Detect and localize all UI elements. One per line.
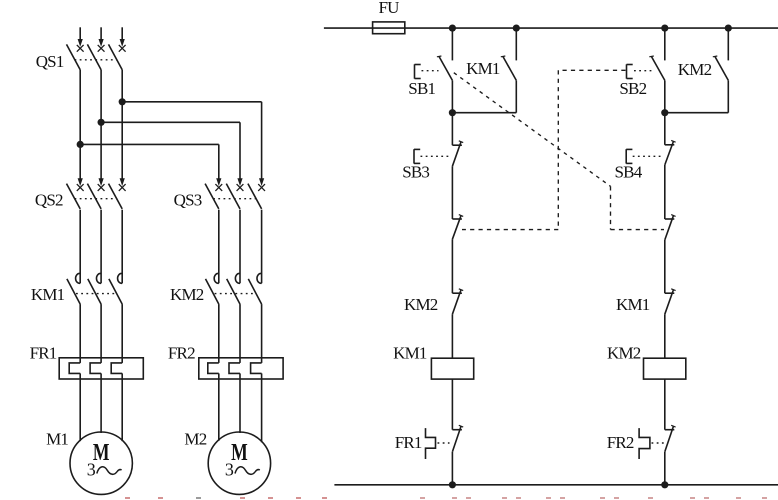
wire: top rail xyxy=(324,27,778,29)
interlock NC contact (opened by SB2) in KM1 branch xyxy=(452,215,463,294)
svg-text:KM1: KM1 xyxy=(616,295,650,314)
FR1 heater element 1 xyxy=(69,363,80,374)
svg-text:KM2: KM2 xyxy=(678,60,712,79)
FR2 heater element 1 xyxy=(208,363,219,374)
node: rail junction SB2 branch xyxy=(661,25,668,32)
node: tap phase A xyxy=(77,141,84,148)
thermal relay FR1 NC contact xyxy=(426,425,464,485)
pushbutton SB4 (NC stop) xyxy=(626,113,675,219)
FR2 heater element 3 xyxy=(251,363,262,374)
node: bottom junction KM2 branch xyxy=(661,481,668,488)
wire: QS3 pole 1 to KM2 xyxy=(218,210,220,284)
wire: FR1 to motor M1 lead 3 xyxy=(121,373,123,441)
wire: FR2 to motor M2 lead 1 xyxy=(218,373,220,440)
watermark remnants (cut-off red text at bottom edge) xyxy=(125,497,767,499)
wire: bottom rail xyxy=(334,484,778,486)
pushbutton SB2 (NO start) xyxy=(627,28,665,113)
wire: branch phase B to QS3 xyxy=(101,122,243,191)
contactor KM2 NC interlock contact xyxy=(452,289,463,358)
svg-text:SB3: SB3 xyxy=(402,163,429,182)
wire: KM1 coil to FR1 contact xyxy=(451,379,453,430)
mechanical link: SB1 to right interlock (dashed) xyxy=(454,73,664,230)
svg-text:KM2: KM2 xyxy=(170,285,204,304)
node: rail junction KM1 aux branch xyxy=(513,25,520,32)
coil KM1 xyxy=(431,358,473,379)
svg-text:KM2: KM2 xyxy=(404,295,438,314)
thermal relay FR2 heater box xyxy=(199,358,283,379)
thermal relay FR2 NC contact xyxy=(639,425,676,485)
wire: branch phase A to QS3 xyxy=(80,144,222,191)
coil KM2 xyxy=(644,358,686,379)
fuse FU xyxy=(373,22,405,34)
wire: KM2 pole 3 to FR2 heater xyxy=(261,304,263,363)
wire: KM2 pole 1 to FR2 heater xyxy=(218,304,220,363)
wire: KM1 pole 2 to FR1 heater xyxy=(100,304,102,363)
wire: KM1 pole 1 to FR1 heater xyxy=(79,304,81,363)
disconnect switch QS1 xyxy=(67,44,123,69)
wire: KM2 pole 2 to FR2 heater xyxy=(239,304,241,363)
node: bottom junction KM1 branch xyxy=(449,481,456,488)
wire: QS3 pole 2 to KM2 xyxy=(239,210,241,284)
wire: supply line L3 xyxy=(119,27,126,51)
wire: supply line L1 xyxy=(77,27,84,51)
wire: KM1 pole 3 to FR1 heater xyxy=(121,304,123,363)
svg-text:FR2: FR2 xyxy=(607,433,634,452)
disconnect switch QS2 xyxy=(67,184,123,209)
mechanical link: SB2 to left interlock (dashed) xyxy=(462,70,626,229)
svg-text:SB1: SB1 xyxy=(408,79,435,98)
contactor KM1 main contacts xyxy=(67,273,122,304)
wire: FR2 to motor M2 lead 3 xyxy=(261,373,263,442)
interlock NC contact (opened by SB1) in KM2 branch xyxy=(665,215,676,294)
motor M1 xyxy=(70,432,132,494)
wire: phase C down from QS1 to QS2 xyxy=(119,70,126,191)
node: SB2/KM2 junction xyxy=(661,109,668,116)
wire: FR1 to motor M1 lead 1 xyxy=(79,373,81,441)
contactor KM2 auxiliary NO contact xyxy=(665,28,729,113)
FR1 heater element 3 xyxy=(111,363,122,374)
contactor KM1 auxiliary NO contact xyxy=(452,28,516,113)
FR1 heater element 2 xyxy=(90,363,101,374)
node: SB1/KM1 junction xyxy=(449,109,456,116)
svg-text:3: 3 xyxy=(225,460,234,480)
svg-text:FU: FU xyxy=(379,0,400,17)
svg-text:FR2: FR2 xyxy=(168,344,195,363)
svg-text:SB4: SB4 xyxy=(615,163,643,182)
motor M2 xyxy=(208,432,270,494)
node: rail junction KM2 aux branch xyxy=(725,25,732,32)
wire: QS2 pole 3 to KM1 xyxy=(121,210,123,284)
wire: branch phase C to QS3 xyxy=(122,102,265,191)
wire: QS2 pole 1 to KM1 xyxy=(79,210,81,284)
svg-text:QS1: QS1 xyxy=(36,52,64,71)
node: tap phase B xyxy=(98,119,105,126)
thermal relay FR1 heater box xyxy=(59,358,143,379)
contactor KM2 main contacts xyxy=(206,273,262,304)
pushbutton SB1 (NO start) xyxy=(415,28,453,113)
svg-text:KM1: KM1 xyxy=(31,285,65,304)
svg-text:3: 3 xyxy=(87,460,96,480)
svg-text:QS2: QS2 xyxy=(35,190,63,209)
contactor KM1 NC interlock contact xyxy=(665,289,676,358)
wire: FR1 to motor M1 lead 2 xyxy=(100,373,102,433)
svg-text:FR1: FR1 xyxy=(395,433,422,452)
svg-text:M2: M2 xyxy=(184,430,206,449)
FR2 heater element 2 xyxy=(229,363,240,374)
wire: phase A down from QS1 to QS2 xyxy=(77,70,84,191)
wire: supply line L2 xyxy=(98,27,105,51)
svg-text:M1: M1 xyxy=(46,430,68,449)
wire: QS3 pole 3 to KM2 xyxy=(261,210,263,284)
svg-text:FR1: FR1 xyxy=(30,344,57,363)
node: tap phase C xyxy=(119,98,126,105)
disconnect switch QS3 xyxy=(205,184,262,209)
wire: FR2 to motor M2 lead 2 xyxy=(239,373,241,433)
svg-text:QS3: QS3 xyxy=(174,190,202,209)
wire: QS2 pole 2 to KM1 xyxy=(100,210,102,284)
wire: phase B down from QS1 to QS2 xyxy=(98,70,105,191)
pushbutton SB3 (NC stop) xyxy=(414,113,463,219)
svg-text:KM2: KM2 xyxy=(607,343,641,362)
wire: KM2 coil to FR2 contact xyxy=(664,379,666,430)
svg-text:KM1: KM1 xyxy=(466,59,500,78)
svg-text:KM1: KM1 xyxy=(393,343,427,362)
svg-text:SB2: SB2 xyxy=(619,79,646,98)
node: rail junction SB1 branch xyxy=(449,25,456,32)
